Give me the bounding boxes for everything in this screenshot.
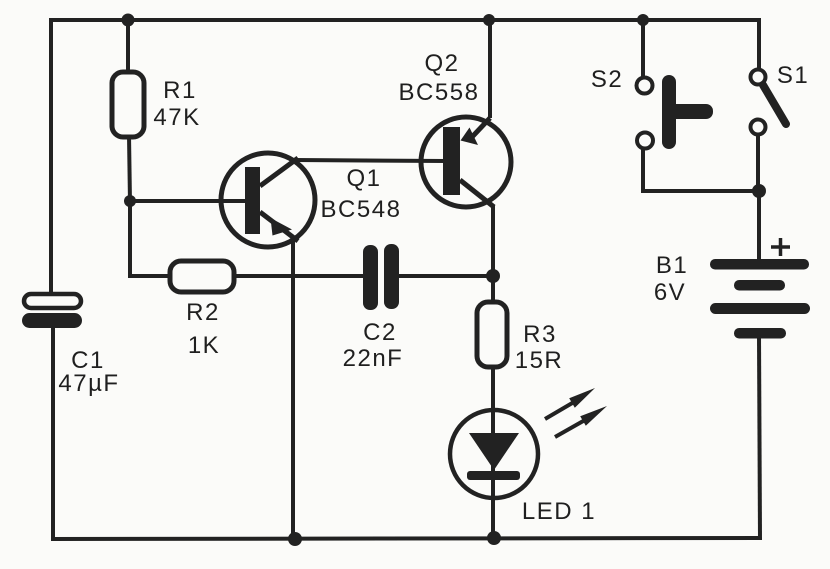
capacitor C2 [363, 244, 399, 310]
wire S2 bottom to junction [643, 148, 759, 191]
svg-text:6V: 6V [654, 279, 686, 306]
wire left rail lower [51, 326, 55, 540]
svg-text:S2: S2 [591, 66, 623, 93]
capacitor C1 [22, 294, 82, 328]
resistor R1 [112, 72, 144, 137]
node top rail / Q2 [483, 14, 495, 26]
node Q1 emitter / bottom rail [288, 532, 302, 546]
svg-text:15R: 15R [515, 347, 564, 374]
resistor R3 [477, 302, 507, 367]
node LED / bottom rail [487, 531, 501, 545]
wire R1 top lead [126, 18, 130, 74]
svg-text:B1: B1 [656, 252, 688, 279]
switch S1 (toggle) [751, 70, 787, 135]
wire R1 bottom lead [129, 135, 130, 203]
wire R1 junction to R2 [130, 201, 172, 276]
wire S1 bottom to junction [756, 135, 760, 193]
wire left rail upper [49, 18, 53, 296]
svg-text:C2: C2 [363, 319, 397, 346]
wire top rail [49, 18, 760, 22]
LED light arrow lower [555, 406, 607, 437]
wire R3 to LED and through to bottom rail [491, 365, 495, 540]
wire R2 to C2 [232, 274, 365, 278]
svg-text:R3: R3 [523, 321, 557, 348]
wire S2 top [641, 18, 645, 77]
LED light arrow upper [545, 388, 595, 419]
wire right rail top (to S1) [757, 18, 761, 69]
wire Q2 collector down [491, 205, 495, 304]
wire Q1 collector to Q2 base [295, 160, 446, 161]
transistor Q1 [221, 153, 315, 247]
svg-text:BC558: BC558 [399, 79, 480, 106]
wire battery to bottom rail [759, 336, 760, 540]
wire Q1 base lead [130, 199, 247, 203]
node top rail / R1 [122, 14, 135, 27]
wire Q2 emitter top [488, 18, 492, 118]
wire Q1 emitter down [291, 241, 295, 540]
node C2 / Q2 collector [486, 269, 500, 283]
battery plus sign [771, 238, 790, 256]
resistor R2 [170, 261, 234, 292]
svg-text:47K: 47K [153, 104, 200, 131]
switch S2 (pushbutton) [637, 75, 714, 149]
svg-text:R1: R1 [163, 77, 197, 104]
svg-text:R2: R2 [186, 299, 220, 326]
node top rail / S2 [637, 14, 649, 26]
svg-text:Q1: Q1 [346, 165, 381, 192]
wire bottom rail [51, 538, 761, 539]
svg-text:S1: S1 [777, 62, 809, 89]
LED LED1 [450, 410, 538, 498]
svg-text:22nF: 22nF [343, 345, 404, 372]
wire junction to battery [757, 191, 761, 261]
node R1 / Q1 base [124, 195, 136, 207]
svg-text:BC548: BC548 [321, 196, 402, 223]
wire C2 to node [397, 274, 493, 278]
svg-text:1K: 1K [188, 332, 220, 359]
node S1-S2 / battery [752, 184, 766, 198]
battery B1 [710, 259, 810, 339]
transistor Q2 [421, 117, 511, 207]
svg-text:47µF: 47µF [58, 370, 119, 397]
svg-text:Q2: Q2 [424, 50, 459, 77]
svg-text:LED 1: LED 1 [522, 498, 596, 525]
